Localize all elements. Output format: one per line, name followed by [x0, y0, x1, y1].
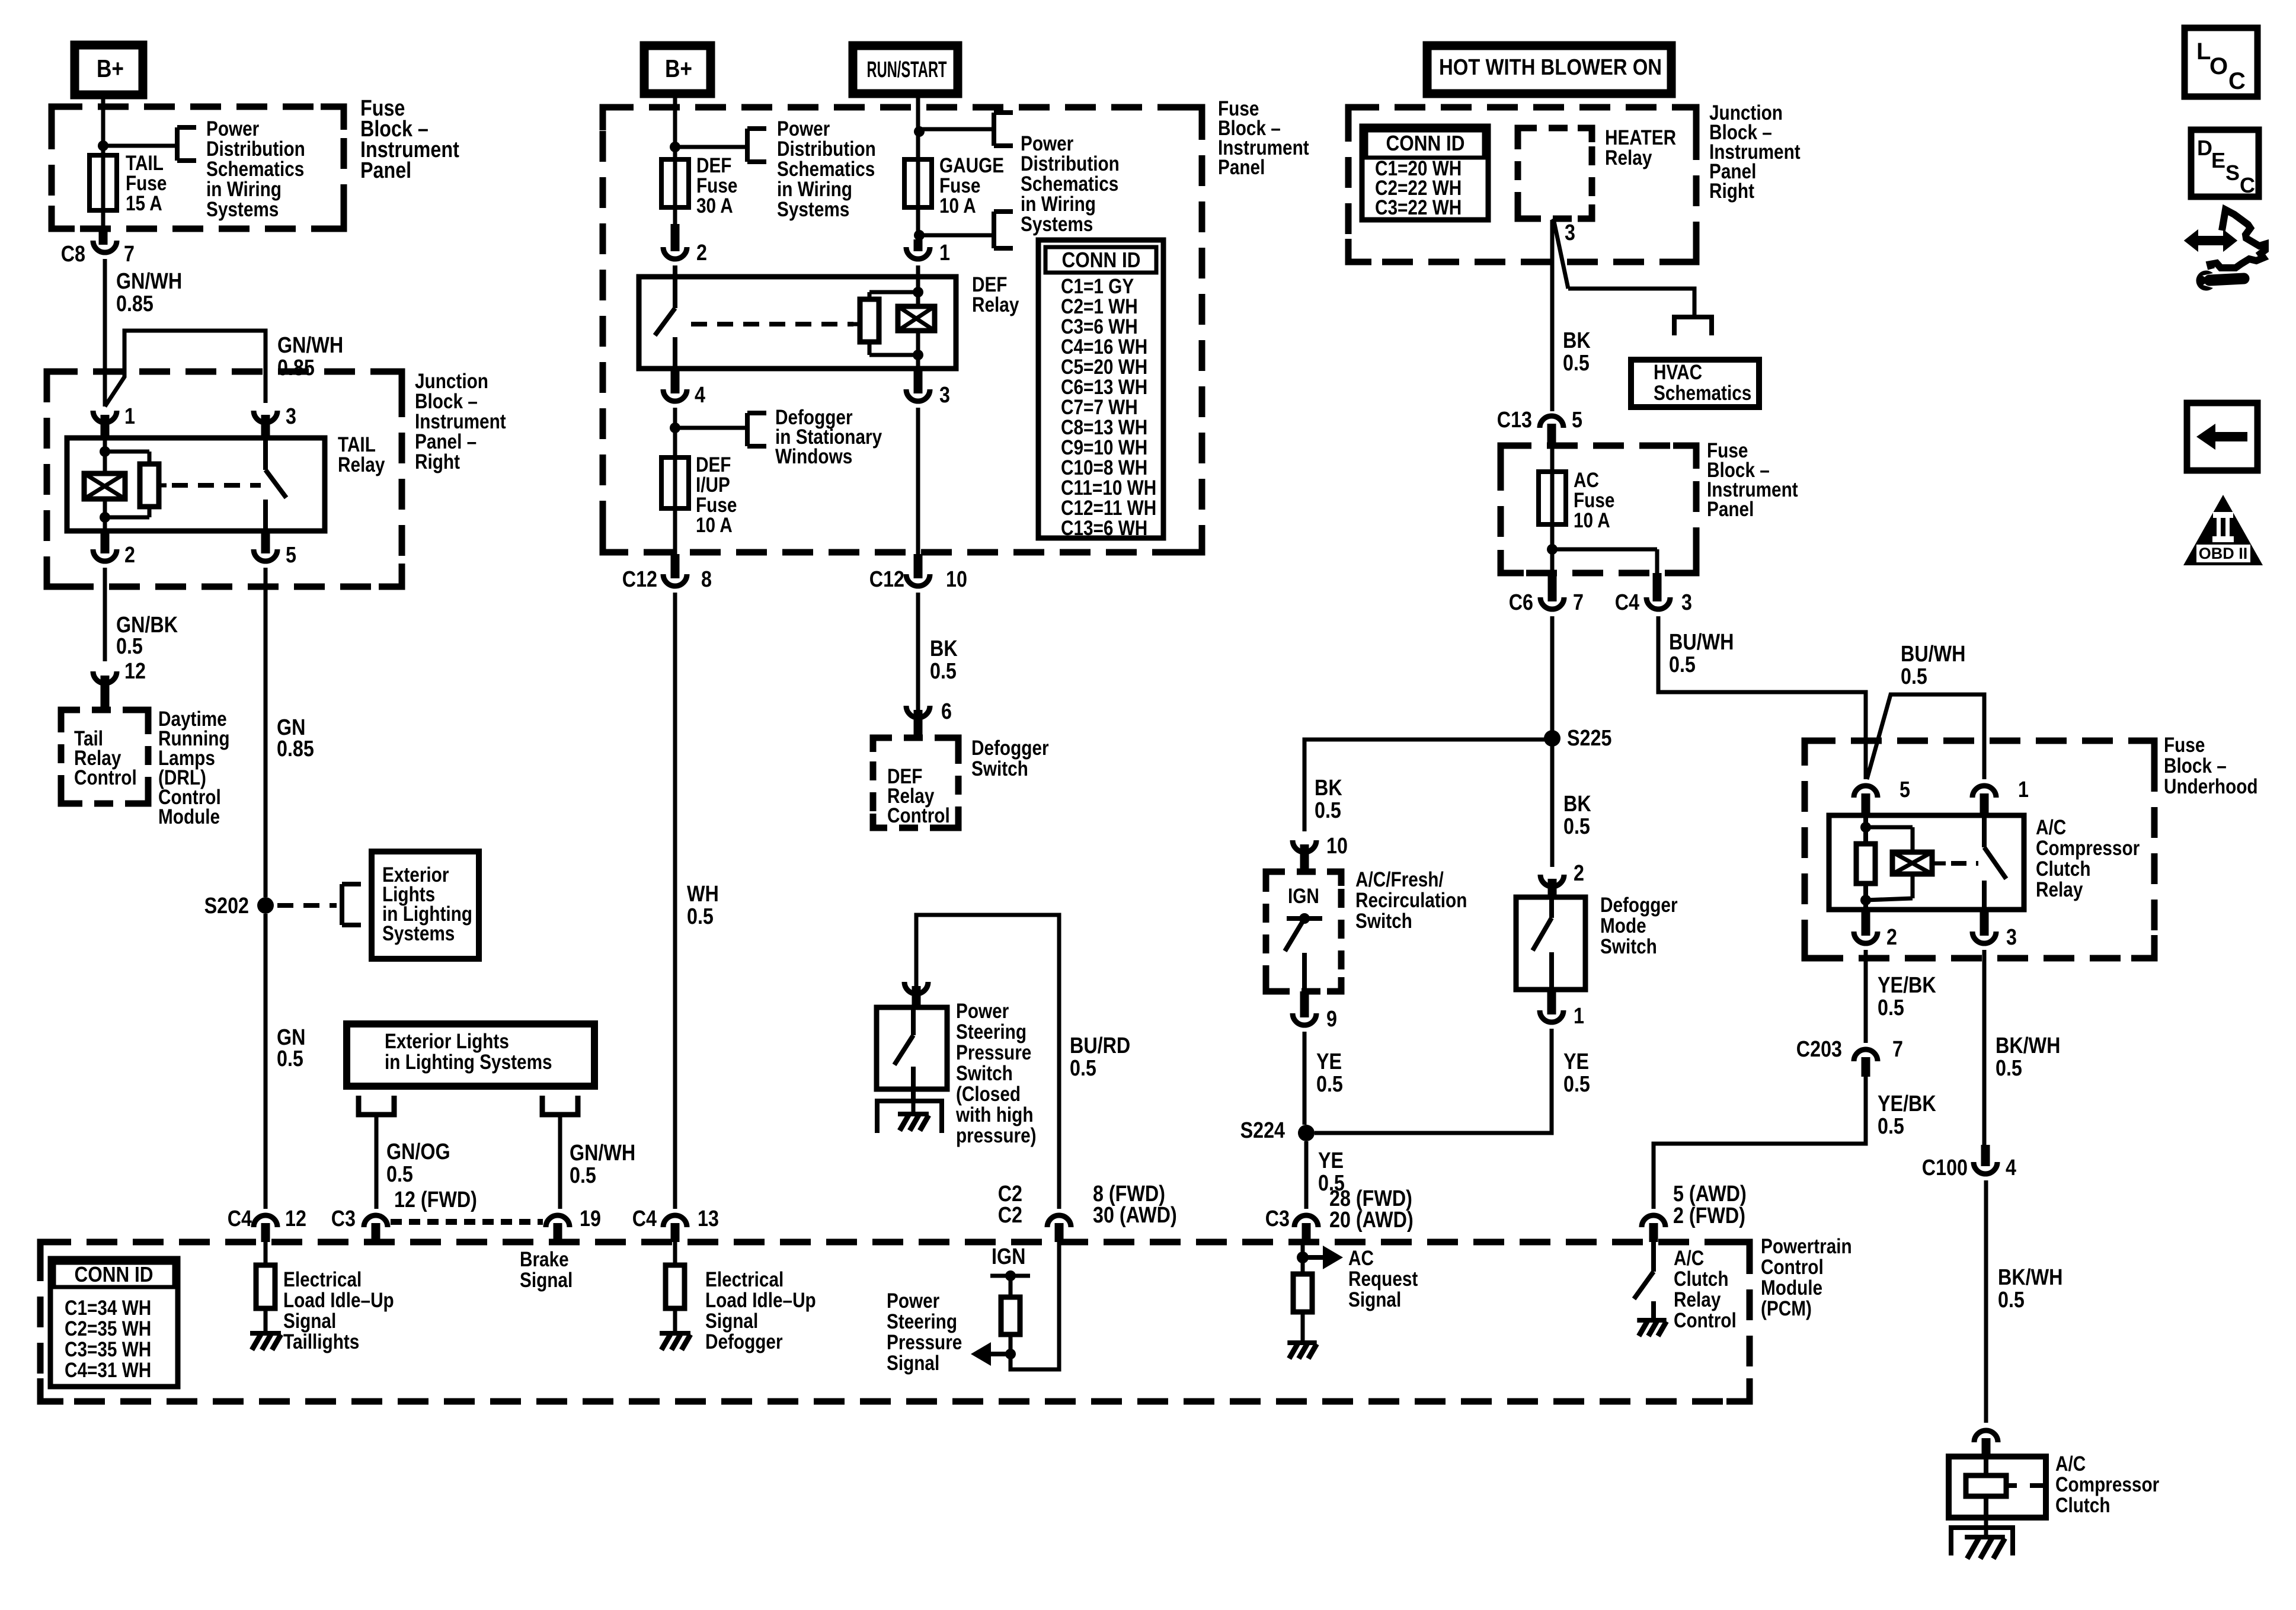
svg-text:B+: B+ [97, 55, 124, 82]
svg-text:1: 1 [1574, 1004, 1584, 1029]
label C203 [1796, 1037, 1842, 1062]
label YE 0.5 (s224) [1318, 1148, 1345, 1196]
switch DEF relay contact [655, 308, 675, 369]
label Defogger Switch [971, 737, 1049, 780]
connector C100 pin 4 [1974, 1145, 1997, 1174]
wire GN/WH drop [558, 1115, 562, 1209]
resistor stub and dashed actuator link [159, 484, 261, 488]
switch AC clutch relay control [1634, 1242, 1654, 1320]
svg-text:C100: C100 [1922, 1156, 1968, 1180]
ground electrical load defogger [660, 1333, 690, 1350]
label 19 [580, 1206, 601, 1231]
label pin 12 [124, 659, 146, 684]
svg-text:TAILFuse15 A: TAILFuse15 A [126, 152, 167, 215]
wire branch diagonal to pin3 loop [105, 331, 266, 406]
svg-text:7: 7 [1573, 590, 1584, 615]
label DEF Relay [972, 273, 1019, 316]
wire BK to pin 6 [916, 593, 920, 710]
relay HEATER dashed box [1518, 128, 1592, 219]
ground AC compressor clutch [1951, 1518, 2013, 1558]
wire def coil bottom [916, 331, 920, 369]
label pin 2 [124, 543, 135, 568]
svg-text:S225: S225 [1567, 726, 1611, 751]
node def coil top dot [913, 287, 923, 297]
svg-text:7: 7 [124, 242, 135, 267]
bracket HVAC [1674, 317, 1712, 335]
ground electrical load taillights [250, 1333, 281, 1350]
label GN 0.85 [277, 715, 314, 761]
svg-text:C12: C12 [622, 567, 657, 592]
svg-text:5: 5 [286, 543, 296, 568]
ground ac request [1287, 1343, 1316, 1359]
dashed actuator link def [691, 322, 861, 327]
label BU/WH 0.5 (1) [1669, 630, 1734, 677]
label 1 (acrelay) [2018, 777, 2029, 802]
label powertrain control module [1761, 1235, 1852, 1320]
wire YE/BK to C203 [1864, 950, 1868, 1043]
label pin 3 (def) [939, 383, 950, 408]
wire ac request [1301, 1242, 1305, 1274]
label GN/OG 0.5 [386, 1140, 450, 1187]
label C3 (brake fwd) [331, 1206, 356, 1231]
svg-text:DEFI/UPFuse10 A: DEFI/UPFuse10 A [696, 453, 737, 537]
connector def relay pin 2 [663, 224, 687, 259]
resistor electrical load defogger [666, 1242, 685, 1333]
wire to HVAC bracket [1568, 289, 1694, 317]
wire psps signal loop [1011, 1242, 1059, 1369]
resistor TAIL relay parallel [105, 452, 159, 517]
label DEF fuse 30A [696, 154, 737, 217]
label BU/WH 0.5 (2) [1901, 642, 1965, 689]
module tail relay control dashed box [61, 710, 148, 804]
fuse block dashed box AC fuse [1501, 446, 1696, 573]
label C100 [1922, 1156, 1968, 1180]
svg-text:CONN ID: CONN ID [1062, 248, 1141, 272]
label pin 6 [941, 699, 952, 724]
power feed RUN/START [853, 46, 958, 94]
wire GN 0.5 down [264, 914, 268, 1209]
label pin 1 [124, 404, 135, 429]
connector pin 1 defogger mode [1540, 990, 1563, 1022]
connector C4 pin 13 into PCM [663, 1215, 687, 1242]
svg-text:2: 2 [696, 241, 707, 265]
svg-text:BK0.5: BK0.5 [930, 636, 958, 684]
connector ac relay pin 3 [1972, 910, 1996, 943]
svg-text:12: 12 [285, 1206, 306, 1231]
wire YE down to S224 [1303, 1032, 1307, 1125]
wire to C12-8 [673, 508, 677, 555]
label 10 (ign) [1326, 834, 1348, 859]
svg-text:3: 3 [1565, 220, 1575, 245]
svg-text:YE0.5: YE0.5 [1316, 1049, 1343, 1097]
bracket power distribution (tail) [177, 127, 196, 161]
label junction block IP right (hvac) [1709, 101, 1801, 203]
fuse block dashed box - instrument panel (tail) [52, 107, 344, 229]
coil AC relay winding [1866, 827, 1932, 900]
power feed B+ (tail circuit) [75, 45, 143, 95]
switch AC relay contact [1984, 815, 2006, 910]
fuse block dashed box - instrument panel (middle) [603, 107, 1202, 552]
dotted link C3-12 to 19 [391, 1219, 543, 1225]
dashed actuator link ac relay [1932, 862, 1978, 866]
connector tail relay pin 5 [254, 531, 277, 561]
switch power steering pressure box [877, 1007, 947, 1089]
wire heater down [1550, 220, 1555, 411]
label 10 [946, 567, 967, 592]
icon left arrow box [2187, 403, 2257, 470]
label power steering pressure signal [887, 1289, 962, 1375]
svg-text:C13: C13 [1497, 408, 1532, 433]
node defogger branch dot [670, 422, 680, 433]
connector pin 10 IGN switch [1293, 840, 1316, 872]
svg-text:7: 7 [1892, 1037, 1903, 1062]
label GAUGE fuse 10A [939, 154, 1004, 217]
svg-text:CONN ID: CONN ID [1386, 131, 1465, 155]
node ac branch dot [1547, 544, 1558, 555]
node ac relay bottom dot [1860, 895, 1871, 905]
label power distribution (gauge) [1021, 132, 1120, 236]
receptacle right under exterior lights [542, 1096, 578, 1115]
connector C8 pin 7 [93, 241, 117, 252]
wire pin1 into coil [103, 438, 107, 473]
label pin 3 (heater) [1565, 220, 1575, 245]
connector PSPS [904, 982, 928, 1007]
label pin 7 [124, 242, 135, 267]
wire ac branch right [1552, 549, 1657, 573]
svg-text:2: 2 [1574, 861, 1584, 886]
bracket exterior lights [342, 884, 361, 925]
wire GN/WH to relay pin1 [103, 259, 107, 406]
label BU/RD 0.5 [1070, 1033, 1130, 1081]
wire pin1 into coil def [916, 265, 920, 306]
connector pin 12 to DRL module [93, 671, 117, 710]
connector ac relay pin 1 [1972, 786, 1996, 815]
svg-text:YE0.5: YE0.5 [1318, 1148, 1345, 1196]
ground AC clutch relay control [1637, 1320, 1666, 1336]
svg-text:10: 10 [1326, 834, 1348, 859]
connector ac relay pin 5 [1854, 786, 1878, 815]
svg-text:10: 10 [946, 567, 967, 592]
connector def relay pin 4 [663, 369, 687, 401]
wire gauge fuse down [916, 207, 920, 239]
wire ac fuse down [1550, 524, 1555, 573]
node def coil bottom dot [913, 350, 923, 360]
relay TAIL Relay box [67, 438, 325, 531]
resistor electrical load taillights [256, 1242, 275, 1333]
coil compressor clutch [1966, 1457, 2046, 1518]
label HVAC Schematics [1654, 361, 1751, 405]
node psps signal dot [1005, 1349, 1016, 1359]
label exterior lights 2 [385, 1030, 552, 1074]
svg-text:DEFFuse30 A: DEFFuse30 A [696, 154, 737, 217]
label pin 3 [286, 404, 296, 429]
label 8FWD 30AWD [1093, 1182, 1177, 1228]
svg-text:5: 5 [1572, 408, 1582, 433]
label electrical load idle-up taillights [283, 1268, 394, 1353]
label 2 (acrelay) [1886, 925, 1897, 950]
label fuse block underhood [2164, 734, 2258, 798]
node gauge dot 1 [914, 126, 925, 137]
svg-text:1: 1 [124, 404, 135, 429]
connector C4 pin 3 (ac) [1646, 573, 1670, 609]
svg-text:9: 9 [1326, 1007, 1337, 1032]
connector C3 AC request into PCM [1294, 1215, 1318, 1242]
label BK 0.5 (def) [930, 636, 958, 684]
label 5AWD 2FWD [1673, 1182, 1747, 1228]
connector C2 into PCM [1047, 1215, 1071, 1242]
svg-text:1: 1 [939, 241, 950, 265]
svg-text:4: 4 [695, 383, 705, 408]
svg-text:12: 12 [124, 659, 146, 684]
svg-text:BK0.5: BK0.5 [1563, 328, 1591, 376]
label AC fuse 10A [1574, 469, 1614, 532]
wire YE/BK to PCM [1654, 1077, 1866, 1209]
wire fuse to C8 [101, 210, 105, 230]
label Tail Relay Control [74, 727, 137, 789]
connector C12 pin 8 [663, 554, 687, 586]
label GN/WH 0.85 (1) [116, 269, 182, 316]
wire YE S224 down [1304, 1141, 1309, 1209]
wire RUN/START down [916, 94, 920, 159]
svg-text:5 (AWD)2 (FWD): 5 (AWD)2 (FWD) [1673, 1182, 1747, 1228]
fuse block underhood dashed box [1805, 741, 2154, 958]
label WH 0.5 [687, 882, 719, 929]
node coil top dot [100, 446, 110, 457]
connector AC compressor clutch [1974, 1430, 1998, 1457]
label C4 (13) [632, 1206, 657, 1231]
fuse TAIL 15A [89, 155, 117, 210]
wire IGN bar [990, 1274, 1030, 1278]
wire BK/WH from pin3 [1982, 950, 1987, 1145]
svg-text:C4: C4 [632, 1206, 657, 1231]
switch IGN contact [1285, 913, 1322, 991]
svg-text:12 (FWD): 12 (FWD) [394, 1188, 477, 1212]
switch PSPS contact [894, 1007, 913, 1101]
junction block dashed box right [1348, 107, 1696, 262]
label 12 (FWD) [394, 1188, 477, 1212]
svg-text:3: 3 [939, 383, 950, 408]
wire coil bottom [103, 499, 107, 531]
node junction dot tail feed [98, 140, 108, 151]
wire to power distribution bracket [103, 144, 177, 148]
label S225 [1567, 726, 1611, 751]
box exterior lights in lighting systems [372, 852, 479, 959]
label exterior lights 1 [382, 863, 472, 945]
connector pin 2 defogger mode [1540, 738, 1564, 897]
svg-text:RUN/START: RUN/START [867, 57, 947, 82]
icon LOC box [2185, 28, 2257, 97]
svg-text:6: 6 [941, 699, 952, 724]
power feed B+ (defogger) [644, 46, 711, 94]
label 12 [285, 1206, 306, 1231]
label IGN (psps) [992, 1244, 1025, 1269]
wire GN/BK down [103, 568, 107, 661]
fuse DEF 30A [661, 159, 689, 207]
svg-text:C3: C3 [1265, 1206, 1290, 1231]
label DEF I/UP fuse [696, 453, 737, 537]
svg-text:HOT WITH BLOWER ON: HOT WITH BLOWER ON [1439, 55, 1662, 80]
label S224 [1240, 1118, 1285, 1143]
module powertrain control module dashed box [40, 1242, 1750, 1401]
connector C12 pin 10 [906, 554, 930, 586]
node splice S225 [1544, 730, 1560, 747]
wire pin4 down [673, 408, 677, 457]
label 4 (c100) [2006, 1156, 2016, 1180]
svg-text:BrakeSignal: BrakeSignal [520, 1248, 573, 1292]
label YE 0.5 (left) [1316, 1049, 1343, 1097]
svg-text:19: 19 [580, 1206, 601, 1231]
label AC fresh recirculation switch [1355, 868, 1467, 933]
wire B+ to fuse [101, 95, 105, 155]
arrow AC request signal [1303, 1246, 1343, 1269]
label YE 0.5 (right) [1563, 1049, 1590, 1097]
label BK/WH 0.5 (1) [1996, 1033, 2060, 1081]
node splice S202 [257, 897, 274, 914]
wire to bracket (def) [675, 145, 747, 149]
node ac relay top dot [1860, 822, 1871, 833]
label GN/BK 0.5 [116, 613, 178, 659]
bracket power distribution (def) [747, 129, 766, 162]
label fuse block IP (middle) [1218, 97, 1309, 179]
label C6 [1509, 590, 1533, 615]
arrow power steering pressure signal [971, 1342, 1011, 1366]
wire to bracket rs1 [919, 127, 994, 132]
svg-text:2: 2 [1886, 925, 1897, 950]
svg-text:OBD II: OBD II [2199, 545, 2248, 562]
wire WH 0.5 long [673, 593, 677, 1209]
svg-text:1: 1 [2018, 777, 2029, 802]
junction block dashed box - instrument panel right (tail relay) [47, 372, 402, 587]
box HVAC schematics [1631, 360, 1759, 407]
connector tail relay pin 1 [93, 411, 117, 438]
switch defogger mode contact [1533, 897, 1552, 990]
svg-text:C2C2: C2C2 [998, 1182, 1022, 1228]
svg-text:C3: C3 [331, 1206, 356, 1231]
coil TAIL relay winding [84, 473, 125, 499]
load A/C compressor clutch box [1949, 1457, 2046, 1518]
label brake signal [520, 1248, 573, 1292]
svg-text:C203: C203 [1796, 1037, 1842, 1062]
label TAIL Relay [338, 433, 385, 476]
svg-text:BK0.5: BK0.5 [1563, 792, 1591, 839]
svg-text:B+: B+ [665, 55, 692, 82]
label C2 C2 [998, 1182, 1022, 1228]
svg-text:BK0.5: BK0.5 [1315, 776, 1342, 823]
wire pin2 into switch [673, 265, 677, 308]
table CONN ID (pcm) [50, 1259, 178, 1387]
label pin 2 (def) [696, 241, 707, 265]
box exterior lights wide [347, 1024, 594, 1086]
icon OBD II triangle [2183, 495, 2263, 565]
wire C6-7 to S225 [1550, 616, 1555, 738]
svg-text:S224: S224 [1240, 1118, 1285, 1143]
connector AC clutch relay control into PCM [1642, 1215, 1665, 1242]
connector def relay pin 1 [906, 239, 930, 259]
svg-text:3: 3 [1681, 590, 1692, 615]
label S202 [204, 894, 249, 918]
label GN 0.5 [277, 1025, 305, 1071]
label IGN [1288, 885, 1319, 908]
label power distribution schematics [206, 117, 305, 221]
svg-text:C8: C8 [61, 242, 85, 267]
label GN/WH 0.5 (brake) [570, 1141, 635, 1188]
wire GN/OG drop [375, 1115, 379, 1209]
bracket defogger stationary windows [747, 413, 766, 446]
label C4 (taillights) [228, 1206, 252, 1231]
label HEATER Relay [1605, 126, 1676, 169]
resistor power steering signal [1001, 1276, 1020, 1354]
wire BK/WH to compressor clutch [1984, 1180, 1988, 1423]
resistor DEF relay parallel [860, 292, 918, 355]
svg-text:GN0.5: GN0.5 [277, 1025, 305, 1071]
label defogger in stationary windows [775, 406, 882, 468]
label C12 (10) [869, 567, 904, 592]
label pin 4 [695, 383, 705, 408]
resistor ac relay [1856, 815, 1875, 910]
wire YE right to S224 [1315, 1029, 1552, 1133]
fuse GAUGE 10A [904, 159, 932, 207]
connector C4 pin 12 into PCM [254, 1215, 277, 1242]
svg-text:S202: S202 [204, 894, 249, 918]
label fuse block instrument panel [360, 96, 459, 183]
dashed link S202 to exterior lights [277, 903, 337, 908]
label AC compressor clutch [2055, 1452, 2160, 1517]
wire to defogger bracket [675, 426, 747, 430]
label BK 0.5 (heater) [1563, 328, 1591, 376]
connector tail relay pin 2 [93, 531, 117, 561]
label power steering pressure switch [955, 1000, 1036, 1147]
connector pin 9 [1293, 991, 1316, 1025]
connector pin 6 defogger switch [906, 706, 930, 738]
label YE/BK 0.5 (2) [1878, 1092, 1936, 1139]
svg-text:C6: C6 [1509, 590, 1533, 615]
pin stub C8 [99, 230, 108, 245]
label 13 [698, 1206, 719, 1231]
label 3 (acrelay) [2006, 925, 2017, 950]
switch DEF relay control dashed box [873, 738, 958, 828]
table CONN ID (middle) [1038, 240, 1163, 540]
connector def relay pin 3 [906, 369, 930, 401]
wire BU/WH jog to pin 1 [1867, 694, 1984, 779]
svg-text:2: 2 [124, 543, 135, 568]
label DEF Relay Control [887, 765, 950, 827]
label DRL control module [158, 708, 230, 828]
node splice S224 [1298, 1125, 1315, 1141]
label AC request signal [1348, 1247, 1418, 1311]
fuse DEF I/UP 10A [661, 457, 689, 508]
connector C13 pin 5 [1540, 416, 1563, 446]
label defogger mode switch [1600, 894, 1678, 958]
wire S225 left branch [1304, 740, 1552, 831]
svg-text:IGN: IGN [992, 1244, 1025, 1269]
wire GN 0.85 from pin 5 [264, 568, 268, 897]
label 9 [1326, 1007, 1337, 1032]
svg-text:3: 3 [2006, 925, 2017, 950]
bracket power distribution rs-top [994, 113, 1013, 146]
ground PSPS [877, 1101, 942, 1133]
node def feed dot [670, 142, 680, 152]
label C4 (ac) [1615, 590, 1640, 615]
resistor ac request [1293, 1274, 1312, 1343]
svg-text:5: 5 [1900, 777, 1910, 802]
label YE/BK 0.5 (1) [1878, 973, 1936, 1020]
label C8 [61, 242, 85, 267]
wire B+2 to DEF fuse [673, 94, 677, 159]
connector tail relay pin 3 [254, 411, 277, 438]
label 7 (c203) [1892, 1037, 1903, 1062]
svg-text:C12: C12 [869, 567, 904, 592]
bracket power distribution rs-bottom [994, 212, 1013, 248]
